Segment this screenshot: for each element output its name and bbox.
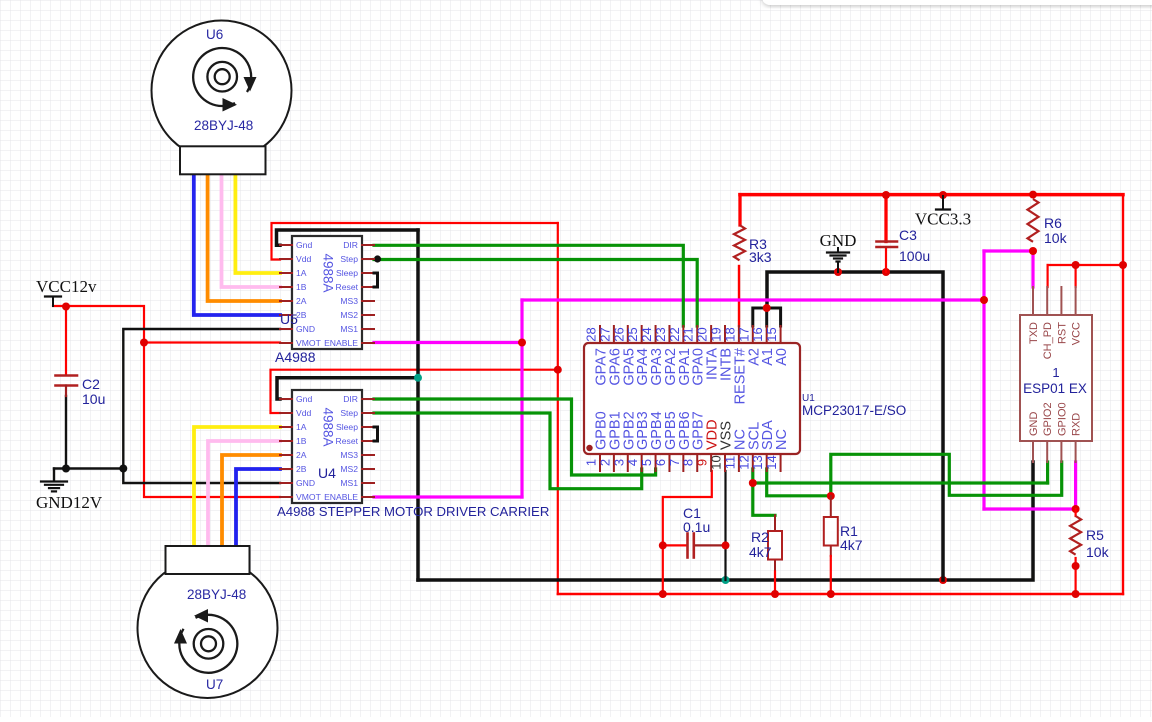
svg-text:8: 8 (681, 459, 696, 466)
svg-text:GND: GND (296, 478, 315, 488)
svg-text:ESP01 EX: ESP01 EX (1023, 381, 1087, 396)
junction C1 right (722, 541, 730, 549)
junction C2 top (62, 303, 70, 311)
wire U5 Vdd red (272, 223, 558, 260)
svg-text:Reset: Reset (336, 436, 359, 446)
svg-text:1B: 1B (296, 436, 307, 446)
svg-text:TXD: TXD (1028, 322, 1040, 344)
svg-text:11: 11 (722, 456, 737, 470)
svg-text:GPIO0: GPIO0 (1056, 402, 1068, 436)
svg-text:10k: 10k (1044, 230, 1068, 246)
svg-text:R5: R5 (1086, 527, 1104, 543)
wire RXD magenta (984, 462, 1076, 509)
svg-text:Gnd: Gnd (296, 394, 312, 404)
capacitor C1 0.1u (683, 505, 710, 558)
ground GND symbol (820, 231, 857, 272)
wire U5 DIR green (374, 245, 683, 326)
svg-text:27: 27 (597, 327, 612, 341)
svg-text:1: 1 (1052, 365, 1059, 380)
wire R5 leads red (1074, 509, 1076, 594)
svg-text:Vdd: Vdd (296, 408, 312, 418)
svg-text:17: 17 (736, 327, 751, 341)
wire U6 blue 2B (194, 174, 280, 315)
svg-text:1: 1 (584, 459, 599, 466)
svg-text:A4988 STEPPER MOTOR DRIVER CAR: A4988 STEPPER MOTOR DRIVER CARRIER (277, 504, 549, 519)
svg-text:18: 18 (722, 327, 737, 341)
svg-text:DIR: DIR (343, 240, 358, 250)
junction GND12V bus (119, 465, 127, 473)
junction U4 Gnd teal (414, 374, 422, 382)
svg-text:4k7: 4k7 (749, 544, 772, 560)
junction RXD R5 (1072, 505, 1080, 513)
svg-text:1A: 1A (296, 422, 307, 432)
svg-text:Sleep: Sleep (336, 422, 358, 432)
svg-text:19: 19 (709, 327, 724, 341)
svg-text:Step: Step (340, 254, 358, 264)
svg-text:28: 28 (584, 327, 599, 341)
wire U7 orange 2A (222, 455, 280, 546)
svg-text:2A: 2A (296, 296, 307, 306)
svg-text:ENABLE: ENABLE (324, 492, 358, 502)
junction C1 bus (659, 590, 667, 598)
svg-text:GND: GND (296, 324, 315, 334)
wire VCC12v rail red (53, 306, 280, 497)
svg-text:4988A: 4988A (321, 253, 336, 292)
svg-text:4988A: 4988A (321, 407, 336, 446)
ground GND12V (36, 482, 103, 513)
resistor R1 4k7 (824, 496, 863, 553)
svg-text:VMOT: VMOT (296, 492, 322, 502)
svg-text:Step: Step (340, 408, 358, 418)
svg-text:6: 6 (653, 459, 668, 466)
svg-text:21: 21 (681, 327, 696, 341)
svg-text:ENABLE: ENABLE (324, 338, 358, 348)
junction U5 VMOT tap (140, 339, 148, 347)
wire R1 bottom red (830, 546, 832, 595)
svg-text:GND: GND (1028, 412, 1040, 437)
wire SCL green (753, 462, 1048, 515)
svg-text:RST: RST (1056, 322, 1068, 344)
junction C2 bottom (62, 465, 70, 473)
wire VCC3.3 rail red thick (740, 195, 1123, 242)
wire U6 orange 2A (208, 174, 280, 301)
svg-text:13: 13 (750, 455, 765, 469)
wire C2 top lead red (65, 306, 67, 375)
wire U7 yellow 1A (194, 427, 280, 546)
op-amp U4 A4988 driver (280, 390, 378, 503)
svg-text:GPIO2: GPIO2 (1042, 402, 1054, 436)
resistor R6 10k (1028, 199, 1068, 246)
svg-text:26: 26 (611, 327, 626, 341)
junction GND symbol (834, 268, 842, 276)
power VCC12v (36, 277, 97, 306)
junction R5 bottom (1072, 562, 1080, 570)
wire magenta right vertical (984, 251, 1033, 509)
junction VCC3.3 tap (939, 191, 947, 199)
wire VDD C1 red (663, 471, 712, 594)
svg-text:16: 16 (750, 327, 765, 341)
junction R6 bottom TXD (1029, 247, 1037, 255)
label ESP01 EX (1023, 365, 1087, 396)
junction ENABLE U5 (518, 339, 526, 347)
ic ESP01 EX module (1020, 287, 1092, 462)
wire U5 Step green (374, 260, 697, 327)
junction U5 Step black (374, 255, 381, 262)
wire U4 Vdd red (271, 370, 558, 413)
capacitor C2 10u (56, 376, 106, 408)
svg-text:A4988: A4988 (275, 349, 316, 365)
wire U6 yellow 1A (235, 174, 280, 273)
svg-text:25: 25 (625, 327, 640, 341)
junction magenta mid (980, 296, 988, 304)
svg-text:4: 4 (625, 459, 640, 466)
wire ground bus bottom black (418, 462, 1033, 580)
svg-text:VCC3.3: VCC3.3 (915, 210, 971, 229)
svg-text:12: 12 (736, 455, 751, 469)
svg-text:2A: 2A (296, 450, 307, 460)
wire SDA green (767, 454, 1062, 496)
svg-text:5: 5 (639, 459, 654, 466)
svg-text:U4: U4 (318, 465, 336, 481)
wire R3 to RESET red (738, 266, 740, 326)
svg-text:MS2: MS2 (340, 464, 358, 474)
svg-text:C3: C3 (899, 227, 917, 243)
svg-text:RXD: RXD (1071, 413, 1083, 436)
svg-text:VMOT: VMOT (296, 338, 322, 348)
motor U7 28BYJ-48 (138, 546, 278, 698)
svg-text:28BYJ-48: 28BYJ-48 (187, 587, 246, 602)
wire U7 pink 1B (208, 441, 280, 546)
wire C1 right lead (694, 544, 726, 546)
junction VSS ground teal (722, 576, 730, 584)
wire U5 Gnd black thick (277, 230, 419, 245)
svg-text:CH_PD: CH_PD (1042, 322, 1054, 359)
ic U1 MCP23017-E/SO (584, 326, 801, 471)
svg-text:10k: 10k (1086, 544, 1110, 560)
wire ENABLE net magenta (374, 300, 984, 497)
svg-text:VCC: VCC (1071, 322, 1083, 345)
wire C2 bottom to GND12V black (54, 396, 123, 480)
junction ground box (939, 576, 947, 584)
svg-text:DIR: DIR (343, 394, 358, 404)
capacitor C3 100u (877, 227, 931, 264)
svg-text:23: 23 (653, 327, 668, 341)
svg-text:MS3: MS3 (340, 296, 358, 306)
svg-text:MS3: MS3 (340, 450, 358, 460)
svg-text:Vdd: Vdd (296, 254, 312, 264)
wire ESP VCC CH_PD red (1048, 265, 1123, 287)
wire ground vertical x418 (416, 230, 420, 580)
svg-text:28BYJ-48: 28BYJ-48 (194, 118, 253, 133)
svg-text:U5: U5 (280, 311, 298, 327)
wire VSS down black (724, 471, 726, 580)
junction C1 left (659, 541, 667, 549)
svg-text:MCP23017-E/SO: MCP23017-E/SO (802, 403, 906, 418)
junction R6 top (1029, 191, 1037, 199)
wire right red vertical (1122, 195, 1124, 594)
svg-text:2B: 2B (296, 464, 307, 474)
wire C3 bottom red (885, 248, 887, 273)
svg-text:GND: GND (820, 231, 857, 250)
svg-text:15: 15 (764, 327, 779, 341)
svg-text:R2: R2 (751, 529, 769, 545)
wire R2 bottom red (774, 560, 776, 595)
svg-text:1B: 1B (296, 282, 307, 292)
junction R2 bus (771, 590, 779, 598)
svg-text:MS2: MS2 (340, 310, 358, 320)
wire red vertical main (557, 223, 559, 594)
junction ESP VCC (1072, 261, 1080, 269)
svg-text:C2: C2 (82, 376, 100, 392)
wire U5/U4 GND black (123, 329, 280, 483)
junction C3 top (882, 191, 890, 199)
power VCC3.3 (915, 196, 971, 229)
wire U4 Gnd black (277, 378, 418, 399)
svg-text:VCC12v: VCC12v (36, 277, 97, 296)
svg-text:0.1u: 0.1u (683, 519, 710, 535)
resistor R2 4k7 (749, 515, 782, 560)
svg-text:3: 3 (611, 459, 626, 466)
motor U6 28BYJ-48 (152, 21, 292, 175)
junction bracket (763, 304, 771, 312)
svg-text:7: 7 (667, 459, 682, 466)
svg-text:R6: R6 (1044, 215, 1062, 231)
svg-text:GND12V: GND12V (36, 493, 103, 512)
svg-text:9: 9 (695, 459, 710, 466)
junction right rail (1119, 261, 1127, 269)
svg-text:MS1: MS1 (340, 324, 358, 334)
svg-text:22: 22 (667, 327, 682, 341)
svg-text:A0: A0 (774, 348, 790, 366)
svg-text:U6: U6 (206, 27, 223, 42)
wire red bottom bus (558, 593, 1123, 595)
svg-text:10u: 10u (82, 391, 105, 407)
wire U7 blue 2B (236, 469, 280, 546)
svg-text:20: 20 (695, 327, 710, 341)
junction R1 bus (827, 590, 835, 598)
svg-text:Reset: Reset (336, 282, 359, 292)
junction C3 bottom (882, 268, 890, 276)
svg-text:1A: 1A (296, 268, 307, 278)
junction R5 bus (1072, 590, 1080, 598)
svg-text:10: 10 (709, 455, 724, 469)
wire A2 A1 A0 bracket black (753, 308, 781, 326)
svg-text:U7: U7 (206, 677, 223, 692)
label A4988 STEPPER MOTOR DRIVER CARRIER (277, 504, 549, 519)
svg-text:Gnd: Gnd (296, 240, 312, 250)
junction SCL (749, 479, 757, 487)
svg-text:3k3: 3k3 (749, 249, 772, 265)
wire U4 Step green (374, 413, 642, 489)
svg-text:MS1: MS1 (340, 478, 358, 488)
wire U6 pink 1B (222, 174, 281, 287)
op-amp U5 A4988 driver (280, 236, 378, 349)
svg-text:100u: 100u (899, 248, 930, 264)
svg-text:24: 24 (639, 327, 654, 341)
junction SDA R1 (827, 492, 835, 500)
resistor R5 10k (1070, 516, 1109, 560)
label A4988 (275, 349, 316, 365)
resistor R3 3k3 (734, 225, 772, 265)
svg-text:14: 14 (764, 455, 779, 469)
junction U4 Vdd (554, 366, 562, 374)
svg-text:2: 2 (597, 459, 612, 466)
svg-text:Sleep: Sleep (336, 268, 358, 278)
svg-text:NC: NC (774, 429, 790, 450)
wire U4 DIR green (374, 399, 656, 475)
svg-text:4k7: 4k7 (840, 537, 863, 553)
label U1 MCP23017-E/SO (802, 393, 906, 418)
wire ground top bus black (767, 272, 943, 580)
